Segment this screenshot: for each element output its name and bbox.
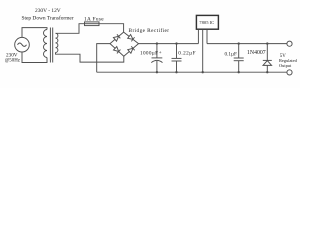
output terminal positive — [287, 41, 292, 46]
fuse F1 1A — [85, 22, 100, 26]
bridge rectifier diamond arms — [110, 32, 139, 56]
diode D3 lower-left arm — [113, 46, 120, 53]
wire DC+ rail bridge to 7805 input pin — [139, 43, 199, 45]
wire DC+ rail 7805 output to output terminal — [207, 43, 287, 45]
transformer T1 primary winding — [44, 30, 48, 58]
diode D4 lower-right arm — [128, 46, 135, 53]
regulator U1 input pin 1 — [197, 30, 199, 44]
svg-text:1000µF: 1000µF — [140, 51, 158, 57]
svg-text:Step Down Transformer: Step Down Transformer — [22, 15, 74, 22]
wire AC source bottom to primary bottom — [22, 52, 47, 63]
svg-text:230V - 12V: 230V - 12V — [35, 8, 61, 14]
label Step Down Transformer — [22, 15, 74, 22]
junction node D5 bottom — [266, 71, 268, 73]
junction node C2 bottom — [175, 71, 177, 73]
svg-text:1A Fuse: 1A Fuse — [84, 16, 104, 22]
label plus polarity C1 — [159, 51, 162, 56]
wire secondary top to fuse — [56, 24, 85, 34]
label Bridge Rectifier — [129, 27, 170, 34]
label 7805 IC — [199, 20, 214, 25]
junction node C1 bottom — [156, 71, 158, 73]
label 0.1uF — [225, 51, 237, 57]
transformer T1 secondary winding — [56, 33, 58, 52]
label 1A Fuse — [84, 16, 104, 22]
junction node D5 top — [266, 42, 268, 44]
label 1N4007 — [247, 50, 266, 56]
capacitor C2 0.22uF — [172, 44, 182, 73]
diode D2 upper-right arm — [128, 34, 135, 41]
wire fuse to bridge top vertex — [99, 24, 124, 32]
junction node U1 gnd bottom — [202, 71, 204, 73]
wire bridge left vertex to ground rail — [97, 44, 110, 73]
diode D1 upper-left arm — [113, 34, 120, 41]
label 0.22uF — [178, 51, 196, 57]
ground rail — [97, 71, 287, 73]
junction node C3 bottom — [238, 71, 240, 73]
regulator U1 output pin 3 — [206, 30, 208, 44]
svg-text:0.22µF: 0.22µF — [178, 51, 196, 57]
transformer T1 core — [50, 28, 52, 63]
label 1000uF — [140, 51, 158, 57]
svg-text:Bridge Rectifier: Bridge Rectifier — [129, 27, 170, 34]
svg-text:7805 IC: 7805 IC — [199, 20, 214, 25]
svg-text:1N4007: 1N4007 — [247, 50, 266, 56]
label 230V - 12V — [35, 8, 61, 14]
output terminal negative — [287, 70, 292, 75]
wire AC source top to primary top — [22, 28, 47, 38]
junction node C1 top — [156, 42, 158, 44]
svg-text:@50Hz: @50Hz — [5, 59, 21, 64]
svg-text:+: + — [159, 51, 162, 56]
label 230V @50Hz — [5, 52, 21, 63]
junction node C2 top — [175, 42, 177, 44]
svg-text:Output: Output — [279, 63, 292, 68]
AC source V1 230V 50Hz — [15, 37, 30, 52]
label 5V Regulated Output — [279, 54, 298, 68]
svg-text:230V: 230V — [6, 52, 18, 58]
capacitor C3 0.1uF — [234, 44, 244, 73]
regulator U1 ground pin 2 — [202, 30, 204, 73]
diode D5 1N4007 — [263, 44, 272, 73]
svg-text:0.1µF: 0.1µF — [225, 51, 237, 57]
regulator U1 7805 box — [196, 15, 218, 29]
junction node C3 top — [238, 42, 240, 44]
wire secondary bottom to bridge bottom vertex — [56, 53, 124, 63]
capacitor C1 1000uF electrolytic — [151, 44, 162, 73]
